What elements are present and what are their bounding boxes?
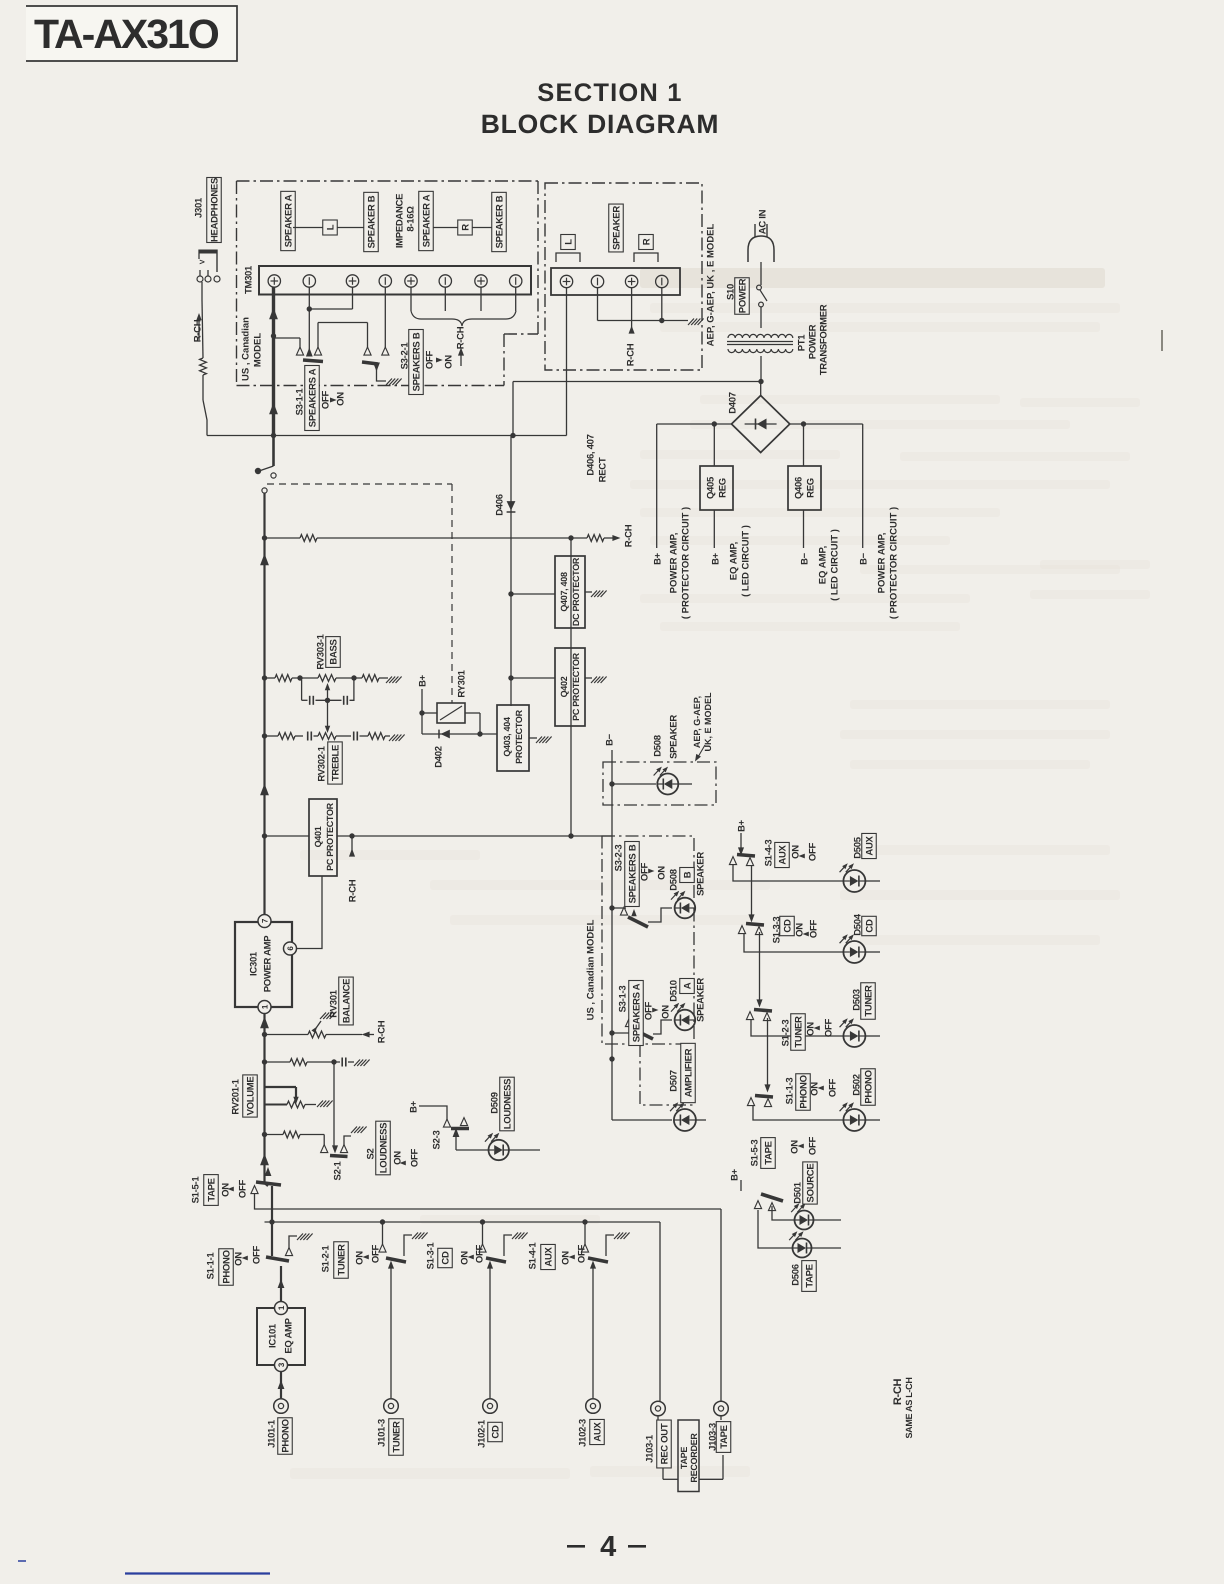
svg-text:J103-1: J103-1	[644, 1434, 655, 1463]
svg-text:OFF: OFF	[409, 1148, 420, 1167]
svg-text:SPEAKER: SPEAKER	[611, 206, 622, 250]
svg-text:ON: ON	[443, 355, 454, 369]
svg-text:ON: ON	[354, 1251, 365, 1265]
svg-text:TRANSFORMER: TRANSFORMER	[818, 304, 829, 375]
svg-text:R-CH: R-CH	[623, 524, 634, 547]
svg-text:( PROTECTOR CIRCUIT ): ( PROTECTOR CIRCUIT )	[680, 507, 691, 619]
svg-text:( LED CIRCUIT ): ( LED CIRCUIT )	[829, 529, 840, 601]
svg-text:POWER: POWER	[807, 324, 818, 359]
svg-text:R-CH: R-CH	[376, 1020, 387, 1043]
svg-text:ON: ON	[233, 1252, 244, 1266]
svg-text:POWER AMP: POWER AMP	[262, 935, 273, 993]
svg-text:D407: D407	[727, 392, 738, 414]
svg-text:S1-2-3: S1-2-3	[780, 1020, 791, 1047]
svg-text:BALANCE: BALANCE	[341, 979, 352, 1023]
svg-text:TUNER: TUNER	[336, 1244, 347, 1276]
svg-text:S1-1-1: S1-1-1	[205, 1252, 216, 1280]
svg-text:B+: B+	[710, 552, 721, 565]
svg-text:J102-3: J102-3	[577, 1419, 588, 1447]
svg-text:RECT: RECT	[597, 457, 608, 482]
svg-text:PT1: PT1	[796, 334, 807, 352]
svg-text:BASS: BASS	[328, 639, 339, 664]
svg-text:RY301: RY301	[456, 669, 467, 697]
svg-text:OFF: OFF	[320, 390, 331, 409]
svg-text:TAPE: TAPE	[679, 1447, 689, 1469]
svg-text:D508: D508	[668, 869, 679, 891]
svg-text:ON: ON	[789, 1140, 800, 1154]
svg-text:IC301: IC301	[248, 951, 259, 976]
svg-text:SPEAKER: SPEAKER	[668, 715, 679, 759]
svg-text:BLOCK DIAGRAM: BLOCK DIAGRAM	[481, 109, 720, 139]
svg-text:SPEAKER B: SPEAKER B	[494, 195, 505, 248]
svg-text:TAPE: TAPE	[804, 1264, 815, 1287]
svg-text:OFF: OFF	[370, 1244, 381, 1263]
svg-text:S1-2-1: S1-2-1	[320, 1245, 331, 1273]
svg-text:PHONO: PHONO	[798, 1075, 809, 1108]
svg-text:J102-1: J102-1	[476, 1419, 487, 1448]
svg-text:L: L	[563, 239, 574, 245]
svg-text:EQ AMP,: EQ AMP,	[728, 542, 739, 581]
svg-text:B+: B+	[652, 552, 663, 565]
svg-text:S1-5-1: S1-5-1	[190, 1176, 201, 1204]
svg-text:TUNER: TUNER	[863, 985, 874, 1017]
svg-text:ON: ON	[656, 866, 667, 880]
svg-text:PROTECTOR: PROTECTOR	[514, 709, 524, 763]
svg-text:B: B	[682, 871, 693, 878]
svg-text:EQ AMP: EQ AMP	[283, 1317, 294, 1353]
svg-text:V: V	[200, 259, 207, 264]
svg-text:SPEAKERS B: SPEAKERS B	[627, 844, 638, 903]
svg-text:S1-4-3: S1-4-3	[763, 840, 774, 867]
svg-text:( LED CIRCUIT ): ( LED CIRCUIT )	[740, 525, 751, 597]
svg-text:B−: B−	[799, 552, 810, 565]
svg-text:S1-1-3: S1-1-3	[784, 1078, 795, 1105]
svg-text:LOUDNESS: LOUDNESS	[502, 1079, 513, 1129]
svg-text:S2: S2	[365, 1148, 376, 1159]
svg-text:PHONO: PHONO	[280, 1419, 291, 1452]
svg-text:RV201-1: RV201-1	[230, 1078, 241, 1114]
svg-text:EQ AMP,: EQ AMP,	[817, 546, 828, 585]
svg-text:OFF: OFF	[474, 1244, 485, 1263]
svg-text:SECTION 1: SECTION 1	[537, 79, 682, 107]
svg-text:S3-1-1: S3-1-1	[294, 388, 305, 416]
svg-text:TAPE: TAPE	[763, 1141, 774, 1164]
svg-text:Q405: Q405	[705, 476, 716, 499]
svg-text:REG: REG	[717, 478, 728, 498]
svg-text:SPEAKER: SPEAKER	[695, 978, 706, 1022]
svg-text:SPEAKER: SPEAKER	[695, 852, 706, 896]
svg-text:J101-1: J101-1	[266, 1419, 277, 1448]
svg-text:ON: ON	[660, 1005, 671, 1019]
svg-text:AUX: AUX	[864, 835, 875, 855]
svg-text:D406, 407: D406, 407	[585, 434, 596, 475]
svg-text:TA-AX31O: TA-AX31O	[34, 11, 219, 57]
svg-text:CD: CD	[440, 1251, 451, 1265]
svg-text:Q401: Q401	[313, 826, 323, 847]
svg-text:D501: D501	[792, 1181, 803, 1204]
svg-text:ON: ON	[560, 1251, 571, 1265]
svg-text:ON: ON	[459, 1251, 470, 1265]
svg-text:S2-1: S2-1	[332, 1161, 343, 1181]
svg-text:US , Canadian MODEL: US , Canadian MODEL	[585, 919, 596, 1020]
svg-text:( PROTECTOR CIRCUIT ): ( PROTECTOR CIRCUIT )	[888, 507, 899, 619]
svg-text:VOLUME: VOLUME	[245, 1077, 256, 1116]
svg-text:A: A	[682, 982, 693, 989]
svg-text:B−: B−	[604, 733, 615, 746]
svg-text:R: R	[460, 224, 471, 231]
svg-text:ON: ON	[790, 845, 801, 859]
svg-text:PC PROTECTOR: PC PROTECTOR	[571, 652, 581, 721]
svg-text:D507: D507	[668, 1070, 679, 1092]
svg-text:OFF: OFF	[808, 919, 819, 938]
svg-text:IMPEDANCE: IMPEDANCE	[394, 194, 405, 248]
svg-text:SPEAKERS B: SPEAKERS B	[411, 332, 422, 391]
svg-text:TAPE: TAPE	[206, 1178, 217, 1201]
svg-text:RV303-1: RV303-1	[315, 633, 326, 669]
svg-text:OFF: OFF	[424, 350, 435, 369]
svg-text:OFF: OFF	[807, 1136, 818, 1155]
svg-text:RECORDER: RECORDER	[689, 1433, 699, 1483]
svg-text:AUX: AUX	[543, 1246, 554, 1266]
svg-text:CD: CD	[490, 1425, 501, 1439]
svg-text:SPEAKER B: SPEAKER B	[366, 195, 377, 248]
svg-text:POWER AMP,: POWER AMP,	[876, 533, 887, 594]
svg-text:PC PROTECTOR: PC PROTECTOR	[325, 802, 335, 871]
svg-text:B+: B+	[736, 819, 747, 832]
svg-text:B+: B+	[729, 1168, 740, 1181]
svg-text:OFF: OFF	[807, 842, 818, 861]
svg-text:TM301: TM301	[243, 265, 254, 294]
svg-text:TUNER: TUNER	[793, 1016, 804, 1048]
svg-text:Q403, 404: Q403, 404	[502, 717, 512, 757]
svg-text:S1-5-3: S1-5-3	[749, 1140, 760, 1167]
svg-text:S3-1-3: S3-1-3	[617, 986, 628, 1013]
svg-text:4: 4	[600, 1531, 616, 1563]
svg-text:S1-3-1: S1-3-1	[425, 1242, 436, 1270]
svg-text:D510: D510	[668, 980, 679, 1002]
svg-text:OFF: OFF	[237, 1179, 248, 1198]
svg-text:AEP, G-AEP, UK , E MODEL: AEP, G-AEP, UK , E MODEL	[705, 223, 716, 346]
svg-text:Q406: Q406	[793, 477, 804, 499]
svg-text:S3-2-3: S3-2-3	[613, 845, 624, 872]
svg-text:TUNER: TUNER	[391, 1421, 402, 1453]
svg-text:REC OUT: REC OUT	[659, 1423, 670, 1464]
svg-text:SPEAKERS A: SPEAKERS A	[631, 983, 642, 1042]
svg-text:OFF: OFF	[827, 1078, 838, 1097]
svg-text:ON: ON	[794, 923, 805, 937]
svg-text:TREBLE: TREBLE	[330, 745, 341, 781]
svg-text:D509: D509	[489, 1092, 500, 1114]
svg-text:R-CH: R-CH	[455, 326, 466, 349]
svg-text:SPEAKERS A: SPEAKERS A	[307, 368, 318, 427]
svg-text:S1-4-1: S1-4-1	[527, 1242, 538, 1270]
svg-text:R-CH: R-CH	[347, 879, 358, 902]
svg-text:D508: D508	[652, 735, 663, 757]
svg-text:OFF: OFF	[251, 1245, 262, 1264]
svg-text:POWER: POWER	[737, 278, 748, 313]
svg-text:R-CH: R-CH	[892, 1378, 904, 1405]
svg-text:D406: D406	[494, 494, 505, 516]
svg-text:POWER AMP,: POWER AMP,	[668, 533, 679, 594]
svg-text:D402: D402	[433, 746, 444, 768]
svg-text:DC PROTECTOR: DC PROTECTOR	[571, 557, 581, 626]
svg-text:PHONO: PHONO	[221, 1250, 232, 1283]
svg-text:LOUDNESS: LOUDNESS	[378, 1123, 389, 1173]
svg-text:ON: ON	[809, 1082, 820, 1096]
svg-text:8-16Ω: 8-16Ω	[405, 206, 416, 232]
svg-text:R: R	[641, 238, 652, 245]
svg-text:Q402: Q402	[559, 676, 569, 697]
svg-text:SPEAKER A: SPEAKER A	[283, 194, 294, 247]
svg-text:J101-3: J101-3	[376, 1419, 387, 1447]
svg-text:UK, E MODEL: UK, E MODEL	[703, 692, 713, 752]
svg-text:US , Canadian: US , Canadian	[240, 317, 251, 381]
svg-text:SPEAKER A: SPEAKER A	[421, 194, 432, 247]
svg-text:IC101: IC101	[267, 1323, 278, 1348]
svg-text:TAPE: TAPE	[719, 1425, 730, 1448]
svg-text:RV301: RV301	[328, 989, 339, 1017]
svg-text:CD: CD	[782, 919, 793, 933]
svg-text:L: L	[325, 224, 336, 230]
svg-text:AMPLIFIER: AMPLIFIER	[683, 1048, 694, 1097]
svg-text:SOURCE: SOURCE	[805, 1164, 816, 1203]
svg-text:Q407, 408: Q407, 408	[559, 572, 569, 612]
svg-text:R-CH: R-CH	[625, 343, 636, 366]
svg-text:AUX: AUX	[777, 844, 788, 864]
svg-text:RV302-1: RV302-1	[316, 745, 327, 781]
svg-text:OFF: OFF	[576, 1244, 587, 1263]
svg-text:MODEL: MODEL	[252, 333, 263, 368]
svg-text:SAME AS L-CH: SAME AS L-CH	[904, 1377, 914, 1438]
svg-text:B+: B+	[417, 674, 428, 687]
svg-text:OFF: OFF	[823, 1018, 834, 1037]
svg-text:S2-3: S2-3	[431, 1131, 442, 1150]
svg-text:AUX: AUX	[592, 1421, 603, 1441]
svg-text:D506: D506	[790, 1264, 801, 1286]
svg-text:CD: CD	[864, 919, 875, 933]
svg-text:PHONO: PHONO	[863, 1070, 874, 1103]
svg-text:HEADPHONES: HEADPHONES	[209, 178, 220, 242]
svg-text:J301: J301	[193, 197, 204, 218]
svg-text:B+: B+	[408, 1100, 419, 1113]
svg-text:ON: ON	[335, 392, 346, 406]
svg-text:B−: B−	[858, 552, 869, 565]
svg-text:AEP, G-AEP,: AEP, G-AEP,	[692, 696, 702, 748]
svg-text:REG: REG	[805, 478, 816, 498]
svg-text:ON: ON	[805, 1022, 816, 1036]
